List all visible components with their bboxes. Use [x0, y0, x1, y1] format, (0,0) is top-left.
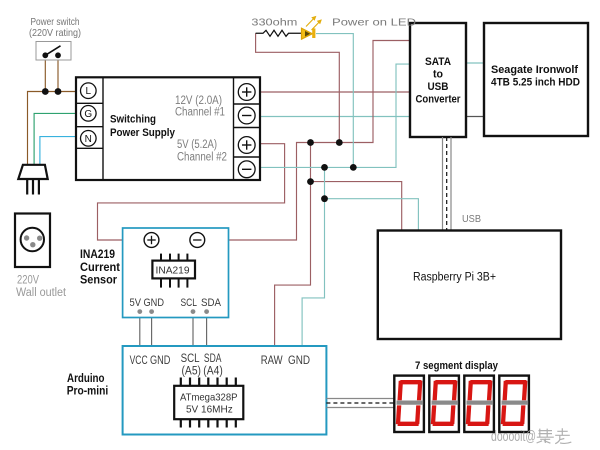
svg-text:Converter: Converter [416, 94, 462, 106]
svg-text:VCC: VCC [130, 355, 148, 367]
svg-text:G: G [84, 109, 92, 120]
svg-text:USB: USB [462, 213, 481, 225]
svg-text:SATA: SATA [425, 56, 451, 68]
svg-text:Channel #2: Channel #2 [177, 152, 227, 164]
svg-text:Wall outlet: Wall outlet [16, 287, 67, 299]
svg-text:12V (2.0A): 12V (2.0A) [175, 95, 222, 107]
svg-text:5V (5.2A): 5V (5.2A) [177, 139, 217, 151]
svg-text:7 segment display: 7 segment display [415, 360, 499, 372]
svg-text:(A5): (A5) [182, 366, 202, 378]
svg-text:Raspberry Pi 3B+: Raspberry Pi 3B+ [413, 272, 496, 284]
svg-text:GND: GND [150, 355, 170, 367]
svg-text:GND: GND [288, 355, 310, 367]
svg-text:RAW: RAW [261, 355, 283, 367]
svg-text:5V: 5V [130, 297, 142, 309]
svg-text:Channel #1: Channel #1 [175, 107, 225, 119]
svg-text:USB: USB [428, 81, 449, 93]
svg-text:4TB 5.25 inch HDD: 4TB 5.25 inch HDD [491, 77, 580, 89]
svg-text:Power on LED: Power on LED [332, 17, 417, 29]
svg-text:220V: 220V [17, 275, 39, 287]
svg-text:to: to [433, 69, 443, 81]
svg-text:(A4): (A4) [203, 366, 223, 378]
svg-text:330ohm: 330ohm [251, 17, 297, 29]
svg-text:Sensor: Sensor [80, 273, 117, 287]
svg-text:SCL: SCL [181, 353, 201, 365]
svg-text:N: N [85, 134, 92, 145]
svg-text:Power Supply: Power Supply [110, 127, 176, 139]
svg-text:dooooit@: dooooit@ [491, 428, 536, 445]
svg-text:(220V rating): (220V rating) [29, 27, 81, 39]
svg-text:ATmega328P: ATmega328P [180, 392, 238, 404]
svg-text:SCL: SCL [181, 297, 198, 309]
svg-text:GND: GND [144, 297, 165, 309]
svg-text:5V 16MHz: 5V 16MHz [186, 404, 233, 416]
svg-text:Pro-mini: Pro-mini [67, 384, 109, 398]
svg-text:Switching: Switching [110, 114, 156, 126]
svg-text:SDA: SDA [204, 353, 222, 365]
svg-text:INA219: INA219 [80, 247, 115, 261]
svg-text:L: L [86, 86, 92, 97]
svg-text:INA219: INA219 [156, 266, 190, 277]
svg-text:Seagate Ironwolf: Seagate Ironwolf [491, 64, 578, 76]
svg-text:SDA: SDA [201, 297, 222, 309]
